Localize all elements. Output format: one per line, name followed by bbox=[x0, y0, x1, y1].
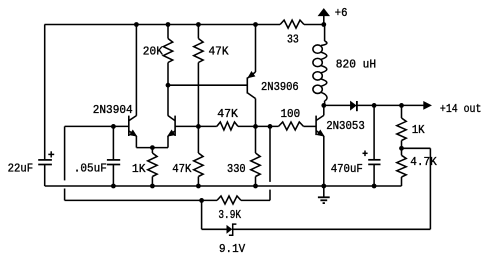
svg-text:4.7K: 4.7K bbox=[410, 155, 437, 169]
svg-text:47K: 47K bbox=[209, 45, 230, 59]
svg-text:1K: 1K bbox=[132, 162, 146, 176]
svg-text:+14 out: +14 out bbox=[440, 102, 482, 116]
svg-text:2N3904: 2N3904 bbox=[93, 103, 133, 117]
svg-text:470uF: 470uF bbox=[331, 162, 363, 176]
svg-text:9.1V: 9.1V bbox=[219, 242, 246, 256]
svg-text:20K: 20K bbox=[143, 45, 164, 59]
svg-text:22uF: 22uF bbox=[8, 162, 33, 176]
svg-text:+6: +6 bbox=[335, 6, 348, 20]
svg-text:100: 100 bbox=[281, 107, 301, 121]
svg-text:47K: 47K bbox=[172, 162, 192, 176]
svg-text:.05uF: .05uF bbox=[74, 162, 107, 176]
svg-text:47K: 47K bbox=[217, 107, 238, 121]
svg-text:3.9K: 3.9K bbox=[218, 208, 241, 222]
svg-text:33: 33 bbox=[287, 33, 299, 47]
svg-text:2N3053: 2N3053 bbox=[326, 119, 365, 133]
svg-text:820 uH: 820 uH bbox=[336, 57, 376, 71]
svg-text:1K: 1K bbox=[412, 123, 426, 137]
svg-text:2N3906: 2N3906 bbox=[261, 80, 299, 94]
svg-text:330: 330 bbox=[227, 162, 246, 176]
